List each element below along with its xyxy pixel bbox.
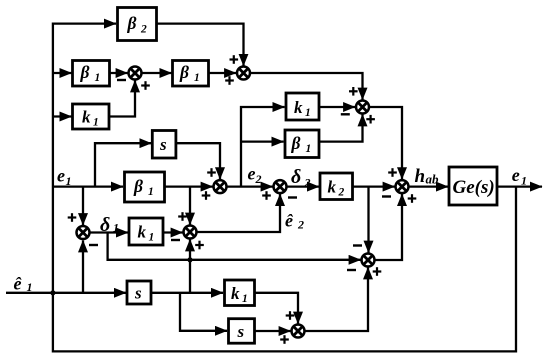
- wire B5 output right and down into junction S4 top: [176, 143, 220, 179]
- sign minus at S3 left below: [341, 113, 350, 115]
- sign plus at S1 bottom right: [141, 81, 150, 90]
- label ehat1: [14, 274, 33, 295]
- summing junction S10: [396, 180, 409, 193]
- svg-text:s: s: [134, 284, 142, 303]
- block B2 (beta2): [118, 8, 157, 41]
- wire B12 output into block B13: [151, 292, 223, 294]
- wire B8 output branch down into junction S7 top: [189, 187, 191, 225]
- svg-text:e: e: [248, 164, 256, 184]
- sign minus at S5 right below: [288, 196, 297, 198]
- wire S8 output right and up into junction S10 bottom: [375, 194, 402, 260]
- svg-text:2: 2: [140, 23, 147, 35]
- svg-text:k: k: [231, 284, 240, 303]
- wire S9 output right and up into junction S8 bottom: [305, 267, 368, 331]
- svg-text:s: s: [237, 322, 245, 341]
- sign plus at S6 top left: [68, 213, 77, 222]
- summing junction S6: [77, 226, 90, 239]
- svg-text:k: k: [138, 222, 147, 241]
- wire branch down into block B14: [180, 293, 227, 331]
- label delta1: [100, 214, 119, 236]
- sign plus at S4 bottom left: [202, 191, 211, 200]
- block B9 (k1): [129, 218, 163, 245]
- wire feed to block B3: [53, 115, 72, 117]
- svg-text:s: s: [159, 135, 167, 154]
- label e2: [248, 164, 262, 187]
- sign plus at S5 bottom left: [262, 191, 271, 200]
- block B5 (s): [152, 131, 176, 159]
- wire S2 output right and down into junction S3 top: [251, 73, 363, 100]
- summing junction S1: [129, 67, 142, 80]
- block B11 (Ge(s)): [449, 167, 497, 205]
- svg-text:Ge(s): Ge(s): [453, 177, 495, 198]
- block B10 (k2): [320, 173, 353, 200]
- svg-text:1: 1: [148, 186, 154, 198]
- svg-text:1: 1: [95, 72, 101, 84]
- wire delta1 branch down and right into junction S8 left: [108, 233, 361, 260]
- wire ehat1 branch up into junction S6 bottom: [82, 240, 84, 292]
- sign plus at S10 bottom right: [408, 194, 417, 203]
- block B12 (s): [127, 281, 151, 304]
- wire B7 output right and up into junction S3 bottom: [319, 114, 363, 141]
- wire B14 output into junction S9: [255, 330, 291, 332]
- sign plus at S9 top left: [286, 311, 295, 320]
- sign plus at S3 top left: [349, 87, 358, 96]
- block B7 (beta1): [285, 130, 319, 158]
- wire e1 branch down into junction S6 top: [82, 187, 84, 226]
- wire feedback loop from output down along bottom and up left side into block B2: [53, 24, 516, 352]
- sign plus at S4 top left: [207, 168, 216, 177]
- svg-text:β: β: [291, 133, 301, 153]
- junction dot at delta1 crossing: [187, 257, 192, 262]
- block B8 (beta1): [125, 172, 165, 202]
- sign plus at S3 bottom right: [366, 115, 375, 124]
- wire B6 output into junction S3: [319, 106, 355, 108]
- wire from s-line up into junction S7 bottom: [189, 239, 191, 292]
- svg-text:1: 1: [242, 293, 248, 305]
- label delta2: [291, 166, 311, 190]
- svg-text:β: β: [80, 62, 90, 82]
- svg-text:1: 1: [306, 143, 312, 155]
- sign minus at S7 left below: [171, 239, 180, 241]
- wire ehat1 line into block B12: [6, 292, 126, 294]
- svg-text:β: β: [179, 62, 189, 82]
- svg-text:1: 1: [149, 231, 155, 243]
- summing junction S8: [362, 254, 375, 267]
- wire B10 output into junction S10: [353, 185, 395, 187]
- wire B13 output right and down into junction S9 top: [255, 293, 299, 324]
- sign minus at S8 top left: [353, 244, 362, 246]
- wire e2 riser feeding block B6: [241, 107, 285, 187]
- svg-text:δ: δ: [291, 166, 301, 188]
- svg-text:e: e: [512, 165, 520, 185]
- wire S10 output into block B11: [409, 185, 448, 187]
- svg-text:ê: ê: [285, 211, 294, 231]
- summing junction S2: [237, 67, 250, 80]
- label hab: [415, 166, 440, 187]
- svg-text:k: k: [328, 177, 337, 196]
- wire B9 output into junction S7: [163, 231, 183, 233]
- sign plus at S7 top left: [178, 212, 187, 221]
- label ehat2: [285, 211, 304, 232]
- svg-text:ê: ê: [14, 274, 23, 294]
- wire S5 output into block B10: [287, 185, 320, 187]
- sign plus at S2 top left: [230, 55, 239, 64]
- svg-text:2: 2: [255, 172, 262, 186]
- wire B10 output branch down into junction S8 top: [367, 187, 369, 253]
- svg-text:2: 2: [297, 218, 304, 232]
- svg-text:ab: ab: [426, 172, 440, 187]
- svg-text:1: 1: [521, 174, 527, 188]
- summing junction S4: [214, 180, 227, 193]
- summing junction S5: [274, 180, 287, 193]
- svg-text:1: 1: [305, 107, 311, 119]
- wire S4 output into junction S5: [227, 185, 273, 187]
- sign minus at S6 bottom right: [89, 244, 98, 246]
- wire B1 output into junction S1: [110, 72, 128, 74]
- svg-text:2: 2: [338, 186, 345, 198]
- wire B2 output right and down into junction S2 top: [157, 24, 244, 66]
- sign plus at S7 bottom right: [195, 241, 204, 250]
- sign minus at S8 left below: [347, 269, 356, 271]
- sign plus at S2 bottom left: [225, 76, 234, 85]
- svg-text:1: 1: [194, 72, 200, 84]
- wire S7 output right and up into junction S5 bottom: [197, 194, 281, 232]
- sign plus at S10 top left: [388, 168, 397, 177]
- wire B8 output into junction S4: [165, 185, 213, 187]
- sign plus at S8 bottom right: [373, 267, 382, 276]
- block B3 (k1): [73, 104, 110, 129]
- block B4 (beta1): [173, 61, 209, 87]
- wire e2 riser branch feeding block B7: [241, 140, 284, 142]
- label e1 left: [57, 166, 72, 189]
- summing junction S7: [184, 226, 197, 239]
- summing junction S9: [292, 325, 305, 338]
- svg-text:β: β: [127, 13, 137, 33]
- wire B11 output e1: [497, 185, 542, 187]
- summing junction S3: [356, 101, 369, 114]
- sign minus at S10 left below: [382, 195, 391, 197]
- wire S1 output into block B4: [142, 72, 172, 74]
- svg-text:e: e: [57, 166, 65, 186]
- junction dot at ehat1 crossing: [50, 290, 55, 295]
- block B6 (k1): [286, 93, 319, 120]
- svg-text:1: 1: [93, 116, 99, 128]
- label e1 right: [512, 165, 527, 188]
- block B14 (s): [229, 319, 255, 344]
- wire B3 output right and up into junction S1 bottom: [109, 80, 135, 116]
- wire feed to block B1: [53, 72, 72, 74]
- wire e1 line into block B8: [53, 185, 123, 187]
- svg-text:k: k: [82, 107, 91, 126]
- svg-text:k: k: [294, 98, 303, 117]
- wire B4 output into junction S2: [209, 72, 237, 74]
- svg-text:β: β: [133, 176, 143, 196]
- wire S3 output right and down into junction S10 top: [369, 107, 402, 179]
- wire S6 output into block B9: [90, 231, 128, 233]
- svg-text:h: h: [415, 166, 426, 187]
- block B1 (beta1): [73, 61, 110, 87]
- block B13 (k1): [225, 280, 255, 306]
- sign minus at S1 left: [117, 79, 126, 81]
- sign plus at S9 bottom left: [280, 335, 289, 344]
- wire e1 branch up into block B5: [95, 143, 151, 186]
